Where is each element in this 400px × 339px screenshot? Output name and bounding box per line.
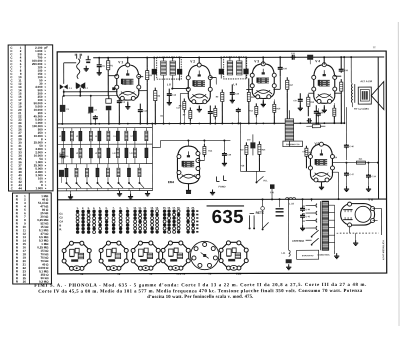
wire primary feed (311, 199, 313, 201)
svg-text:FIMI S. A. - PHONOLA - Mod. 63: FIMI S. A. - PHONOLA - Mod. 635 - 5 gamm… (34, 283, 366, 289)
svg-text:CAMBIOTENS.: CAMBIOTENS. (317, 253, 330, 256)
svg-text:12.: 12. (143, 207, 147, 210)
resistor R20 (340, 79, 342, 82)
capacitor C10 (139, 108, 141, 110)
wire V4 pins (334, 75, 341, 77)
speaker magnet box (358, 87, 371, 104)
tube V2 (IF amplifier) (188, 65, 210, 104)
resistor R11b (214, 105, 216, 108)
junction dots rails (98, 123, 100, 125)
resistor R21 (305, 146, 307, 148)
ground coil bank (70, 194, 72, 197)
wire : mid AVC rail (57, 122, 344, 125)
resistor R1 (107, 58, 109, 61)
wire x344 (343, 57, 345, 123)
svg-text:L11: L11 (130, 153, 133, 155)
components under T2 (221, 89, 223, 92)
svg-text:16.: 16. (167, 207, 171, 210)
band switch contacts (65, 182, 67, 184)
ground below transformer (334, 250, 336, 254)
mains plug prongs (249, 215, 251, 227)
tube V3 (detector) (252, 64, 274, 99)
svg-text:R.: R. (59, 227, 62, 231)
svg-text:L2: L2 (59, 136, 61, 138)
coil L6 row1 (134, 128, 136, 131)
wire antenna to left (64, 62, 76, 64)
cap near T2 (237, 108, 239, 110)
svg-text:L10: L10 (112, 153, 115, 155)
svg-text:17.: 17. (172, 207, 176, 210)
svg-text:1.000: 1.000 (35, 186, 43, 190)
tube socket V1 (64, 243, 90, 269)
coil L4 row1 (98, 128, 100, 131)
wire (64, 95, 119, 97)
coil L8 row2 (79, 144, 81, 148)
coil L7 row2 (62, 144, 64, 148)
coupling capacitor C36 (340, 68, 342, 70)
svg-text:14.: 14. (155, 207, 159, 210)
svg-text:R25: R25 (359, 159, 362, 161)
junction blob (112, 87, 115, 90)
ground V6 (355, 240, 357, 243)
coil C31 row3 (86, 164, 88, 168)
speaker cone (371, 82, 384, 110)
wire T1 down (162, 75, 164, 123)
tube V4 (AF amplifier) (314, 65, 335, 104)
coil L12 row3 (75, 164, 77, 168)
ground under EM4 (188, 184, 190, 190)
coil C11 row1 (71, 128, 73, 131)
coil C15 row1 (107, 128, 109, 131)
svg-text:FONO: FONO (219, 185, 226, 188)
wire coil bank right (151, 124, 153, 191)
svg-text:N 547 METALLICA: N 547 METALLICA (382, 240, 385, 260)
wire V1 pin to R1 (108, 75, 117, 77)
ground under V1 (127, 102, 129, 106)
resistor under V3 (255, 103, 257, 106)
heater dashed line (337, 232, 379, 234)
capacitor C8 (118, 99, 120, 101)
svg-text:7.: 7. (113, 207, 115, 210)
svg-text:4.: 4. (93, 207, 95, 210)
ground under V5 (320, 182, 322, 186)
antenna terminal prongs (76, 54, 78, 59)
wire (180, 93, 189, 95)
svg-text:TE' 1,2 A/294: TE' 1,2 A/294 (354, 108, 369, 111)
extra small parts row (94, 115, 96, 117)
svg-text:CA: CA (59, 219, 63, 223)
resistor R10 (248, 89, 250, 92)
wire horizontal 162 (332, 162, 377, 164)
resistor R7 (189, 108, 191, 111)
schematic border frame (57, 51, 387, 274)
coil C28 row2 (145, 144, 147, 148)
dispositivo box (297, 250, 319, 259)
svg-text:L3: L3 (76, 136, 78, 138)
coil L9 row2 (98, 144, 100, 148)
coil C21 row2 (71, 144, 73, 148)
coil C17 row1 (125, 128, 127, 131)
model number 635 (207, 205, 244, 207)
svg-text:C1: C1 (59, 212, 63, 216)
svg-text:EM4: EM4 (236, 273, 242, 276)
wire EM4 pin (198, 159, 204, 161)
svg-text:V 6: V 6 (368, 198, 373, 202)
coil C33 row3 (107, 164, 109, 168)
capacitor antenna input (87, 56, 89, 60)
trimmer cap black right of T2 (243, 69, 248, 75)
capacitor C37 (299, 98, 301, 100)
svg-text:L 8: L 8 (167, 82, 171, 86)
filter choke schermatura (285, 119, 294, 141)
svg-text:6.: 6. (106, 207, 108, 210)
tube V1 (converter) (117, 65, 139, 100)
capacitor block (286, 259, 292, 263)
tuning gang capacitor C1 (60, 84, 64, 89)
svg-text:V 3: V 3 (254, 59, 259, 63)
switch P.U. (255, 181, 257, 183)
ground near phono (212, 189, 214, 192)
svg-text:2.: 2. (82, 207, 84, 210)
cathode resistor R6 (154, 88, 156, 91)
coil L14 row3 (117, 164, 119, 168)
tube socket EM4 (221, 242, 247, 268)
tube socket V4 e V5 (163, 242, 189, 268)
svg-text:44: 44 (18, 186, 22, 190)
ground under V2 (198, 106, 200, 109)
svg-text:V4 e V5: V4 e V5 (176, 273, 186, 276)
svg-text:V 4: V 4 (315, 59, 320, 63)
coil C26 row2 (125, 144, 127, 148)
capacitor C34 (307, 120, 309, 122)
svg-text:635: 635 (212, 206, 244, 227)
svg-text:ALT. A 230: ALT. A 230 (360, 80, 372, 83)
capacitor C41 (270, 184, 275, 189)
trimmer cap black left of T2 (219, 69, 224, 75)
capacitor C24b (367, 163, 369, 173)
resistor R23 (245, 142, 247, 145)
svg-text:8.: 8. (120, 207, 122, 210)
coil L13 row3 (96, 164, 98, 169)
svg-text:125: 125 (302, 228, 305, 230)
wire : top B+ rail (93, 56, 384, 59)
svg-text:245: 245 (302, 212, 305, 215)
capacitor C35b below V4 (317, 112, 319, 114)
svg-text:26: 26 (23, 280, 27, 284)
transformer secondary taps (329, 204, 335, 206)
capacitor C18 (168, 92, 170, 94)
power transformer core (322, 201, 329, 250)
svg-text:C2: C2 (59, 216, 63, 220)
terminal strip contact dots (76, 210, 79, 213)
capacitor C46 (345, 107, 347, 143)
black capacitor on B+ rail (307, 55, 313, 60)
tube socket V3 (133, 243, 159, 269)
wire V1 right pins (138, 90, 147, 92)
resistor value table R1-R26 (13, 193, 52, 284)
capacitor C25 (231, 91, 233, 93)
svg-text:220: 220 (302, 221, 305, 223)
svg-text:R26: R26 (333, 157, 336, 159)
ground under V3 (262, 99, 264, 103)
coil C19 row1 (145, 128, 147, 131)
svg-text:d’uscita 10 watt. Per fonincel: d’uscita 10 watt. Per fonincello scala v… (147, 295, 253, 300)
trimmer cap black right of T1 (177, 69, 182, 75)
svg-text:13.: 13. (150, 207, 154, 210)
switch S1 (263, 222, 269, 228)
voltage selector switches (312, 230, 319, 236)
resistor R16 (333, 105, 335, 108)
coil L15 row3 (138, 164, 140, 168)
black cap on frame left 2 (59, 170, 64, 177)
svg-text:9.: 9. (127, 207, 129, 210)
coil C24 row2 (107, 144, 109, 148)
terminal strip end marks (196, 210, 198, 212)
svg-text:EM4: EM4 (168, 180, 175, 184)
svg-text:ANTENNA: ANTENNA (292, 240, 304, 243)
resistor R14 (203, 144, 205, 146)
resistor R25 horizontal (356, 161, 365, 164)
capacitor value table C1-C44 (8, 45, 53, 191)
tube V6 (rectifier) (341, 204, 375, 226)
coil L11 row2 (134, 144, 136, 148)
capacitor C38 (223, 140, 225, 151)
tube V5 (output pentode) (310, 144, 332, 182)
capacitor C47 (345, 163, 347, 171)
fuse (262, 199, 264, 206)
resistor R19 (307, 94, 309, 97)
transformer primary taps (316, 204, 317, 208)
wire : bottom chassis rail (58, 198, 387, 201)
svg-text:R12: R12 (249, 110, 252, 112)
coil L3 row1 (79, 128, 81, 131)
coil L10 row2 (117, 144, 119, 148)
svg-text:V 5: V 5 (315, 142, 320, 146)
coil L2 row1 (62, 128, 64, 131)
svg-text:C43: C43 (302, 150, 305, 153)
svg-text:Corte IV da 45,5 a 80 m. Medie: Corte IV da 45,5 a 80 m. Medie da 181 a … (38, 289, 363, 295)
output transformer winding (350, 84, 353, 103)
svg-text:L 9: L 9 (233, 82, 237, 86)
capacitor C5 with ground (98, 63, 100, 65)
svg-text:325: 325 (302, 206, 305, 208)
coil C23 row2 (90, 144, 92, 148)
tube socket V2 (101, 243, 127, 269)
tuning gang capacitor C2 (76, 84, 80, 89)
wire : right side drop (377, 57, 379, 199)
components under V1 left (88, 107, 93, 113)
resistor R5b (183, 99, 185, 102)
page edge shadow (397, 22, 400, 326)
svg-text:19.: 19. (186, 207, 190, 210)
svg-text:L5: L5 (113, 136, 115, 138)
wire V3 pins (246, 88, 253, 90)
svg-text:15.: 15. (163, 207, 167, 210)
svg-text:L9: L9 (95, 153, 97, 155)
svg-text:B: B (59, 223, 61, 227)
capacitor C30 (279, 66, 281, 68)
svg-text:11.: 11. (138, 207, 142, 210)
capacitor C40 (250, 142, 255, 148)
wires EM4 top (187, 141, 189, 146)
svg-text:DISPOSITIVO: DISPOSITIVO (302, 255, 314, 257)
svg-text:SCHERMO 700: SCHERMO 700 (286, 144, 299, 146)
capacitor C33 (315, 110, 317, 112)
resistor R17 (286, 77, 288, 80)
phono jack (216, 175, 226, 181)
band switch coil bank (57, 127, 152, 129)
coil L5 row1 (117, 128, 119, 131)
svg-text:C37: C37 (293, 100, 296, 102)
svg-text:V 2: V 2 (190, 60, 195, 64)
coil C29 row3 (65, 164, 67, 168)
wire (240, 170, 265, 172)
svg-text:C40: C40 (247, 138, 250, 141)
svg-text:1.: 1. (77, 207, 79, 210)
capacitor on frame left 1 (61, 153, 63, 155)
tube socket V6 (190, 241, 218, 269)
svg-text:C51: C51 (65, 156, 68, 158)
wire T1 to V2 grid (172, 88, 189, 90)
wire V1 left pin to tuning caps (64, 91, 118, 93)
ground under V4 (323, 105, 325, 109)
wire V2 right pin up (210, 76, 217, 78)
trimmer bowtie on antenna (76, 82, 81, 88)
svg-text:L 10: L 10 (289, 202, 294, 205)
svg-text:10.: 10. (133, 207, 137, 210)
ground antenna cap (85, 66, 87, 69)
svg-text:V 1: V 1 (118, 60, 123, 64)
svg-text:3.: 3. (88, 207, 90, 210)
tube EM4 (magic eye) (177, 146, 199, 184)
trimmer cap black left of T1 (152, 69, 157, 75)
capacitor C20 (209, 110, 211, 112)
resistor R24 (258, 141, 260, 144)
capacitors C44 C45 (302, 199, 304, 206)
svg-text:5.: 5. (99, 207, 101, 210)
svg-text:L6: L6 (130, 136, 132, 138)
coil C13 row1 (90, 128, 92, 131)
svg-text:18.: 18. (177, 207, 181, 210)
resistor R22 horizontal (312, 125, 320, 128)
resistor R18 (273, 101, 275, 104)
resistor R3 (146, 68, 148, 71)
coil C35 row3 (128, 164, 130, 168)
wire V5 to rail (332, 171, 339, 173)
IF transformer T1 (157, 57, 182, 79)
svg-text:20.: 20. (191, 207, 195, 210)
ground on bottom rail 2 (147, 191, 149, 194)
svg-text:L8: L8 (76, 153, 78, 155)
wires rectifier (373, 208, 382, 210)
svg-text:P.U.: P.U. (263, 180, 267, 182)
antenna coil L1 (77, 59, 80, 79)
IF transformer T2 (224, 57, 247, 79)
ground on bottom rail 1 (119, 191, 121, 194)
mains cord capacitors (276, 208, 284, 210)
oscillator padder components (106, 99, 112, 104)
black padding capacitor (60, 105, 66, 112)
capacitor C31 (291, 56, 293, 58)
